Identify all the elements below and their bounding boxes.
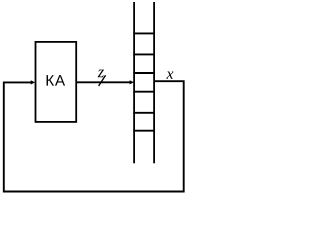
wire: feedback loop (x output, right side down, bottom, left side up to KA input): [4, 81, 184, 191]
tape: left rail: [133, 2, 135, 163]
tape: right rail: [153, 2, 155, 163]
arrowhead into tape cell: [130, 80, 134, 84]
label z: [98, 70, 104, 78]
tape rung 4: [133, 91, 155, 93]
tape rung 6: [133, 130, 155, 132]
label x: [166, 71, 173, 78]
tape rung 1: [133, 32, 155, 34]
tape rung 2: [133, 53, 155, 55]
arrowhead into KA input: [31, 80, 35, 84]
wire: z bus from KA to tape: [76, 81, 131, 83]
block KA (finite automaton) U1: [36, 42, 77, 122]
label KA: [47, 75, 55, 86]
bus-width slash on z wire: [99, 75, 106, 86]
tape rung 5: [133, 112, 155, 114]
tape rung 3: [133, 72, 155, 74]
